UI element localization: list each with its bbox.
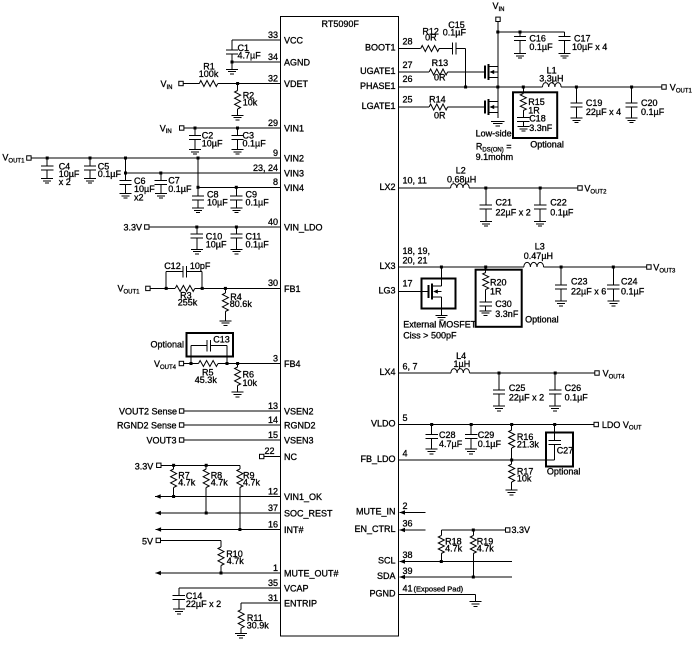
junction R4 <box>224 287 227 290</box>
svg-text:10µF: 10µF <box>202 138 223 148</box>
wire VIN2 to VIN4 <box>197 158 199 187</box>
svg-text:22µF x 6: 22µF x 6 <box>571 286 606 296</box>
resistor R11 <box>240 603 242 610</box>
svg-text:26: 26 <box>403 74 413 84</box>
junction R20 top <box>484 266 487 269</box>
junction R19 bottom <box>472 576 475 579</box>
svg-text:VSEN3: VSEN3 <box>284 436 314 446</box>
svg-text:4.7µF: 4.7µF <box>238 51 262 61</box>
resistor R6 <box>237 364 239 368</box>
resistor R8 <box>205 465 207 469</box>
capacitor C27 <box>554 425 556 441</box>
capacitor C25 <box>498 373 500 390</box>
svg-text:0.1µF: 0.1µF <box>565 392 589 402</box>
junction C12 left <box>165 287 168 290</box>
svg-text:x2: x2 <box>134 193 144 203</box>
wire 3.3V rail <box>161 464 240 466</box>
svg-text:Optional: Optional <box>530 140 564 150</box>
svg-text:Optional: Optional <box>525 315 559 325</box>
svg-text:10µF x 4: 10µF x 4 <box>572 42 607 52</box>
junction C3 <box>236 127 239 130</box>
ground below R6 <box>232 391 244 393</box>
resistor R15 <box>522 87 524 94</box>
svg-text:VIN3: VIN3 <box>284 169 304 179</box>
capacitor C22 <box>539 188 541 205</box>
transistor Q3 external MOSFET <box>429 284 442 300</box>
svg-text:BOOT1: BOOT1 <box>365 43 396 53</box>
ground below C23 <box>555 300 567 302</box>
ground below C5 <box>84 178 96 180</box>
svg-text:22µF x 2: 22µF x 2 <box>186 599 221 609</box>
capacitor C30 <box>480 301 492 303</box>
svg-text:LX2: LX2 <box>379 182 395 192</box>
inductor L1 <box>543 83 562 87</box>
capacitor C13 <box>190 346 192 364</box>
wire R12 to C15 <box>439 48 452 50</box>
capacitor C12 branch <box>165 272 167 289</box>
svg-text:9: 9 <box>273 148 278 158</box>
ground below C14 <box>173 608 185 610</box>
junction R9 bottom <box>238 528 241 531</box>
resistor R19 <box>472 530 474 536</box>
junction C20 <box>630 86 633 89</box>
junction R19 top <box>472 529 475 532</box>
svg-text:C22: C22 <box>550 197 567 207</box>
svg-text:R14: R14 <box>429 95 446 105</box>
junction C19 <box>575 86 578 89</box>
wire R5 to FB4 <box>218 363 281 365</box>
wire FB_LDO pin 4 <box>399 459 555 461</box>
svg-text:SOC_REST: SOC_REST <box>284 509 333 519</box>
svg-text:10, 11: 10, 11 <box>403 176 427 186</box>
junction C12 right <box>201 287 204 290</box>
svg-text:33: 33 <box>268 30 278 40</box>
svg-text:1: 1 <box>273 563 278 573</box>
resistor R3 <box>175 285 195 291</box>
svg-text:13: 13 <box>268 401 278 411</box>
wire R1 to VDET <box>218 83 281 85</box>
junction C10 <box>195 226 198 229</box>
svg-text:VDET: VDET <box>284 79 309 89</box>
junction C22 <box>539 187 542 190</box>
svg-text:0.1µF: 0.1µF <box>98 169 122 179</box>
optional box R20 C30 <box>476 270 522 327</box>
svg-text:16: 16 <box>268 519 278 529</box>
svg-text:100k: 100k <box>199 69 219 79</box>
svg-text:SDA: SDA <box>377 571 396 581</box>
capacitor C16 <box>519 32 521 37</box>
wire Q3 drain <box>440 267 442 286</box>
ground below C9 <box>230 207 242 209</box>
junction R7 bottom <box>172 495 175 498</box>
wire L3 to VOUT3 <box>544 266 647 268</box>
junction C11 <box>235 226 238 229</box>
junction C7 <box>159 172 162 175</box>
wire LGATE1 pin 25 <box>399 106 430 108</box>
wire VIN2 pin 9 <box>31 157 280 159</box>
svg-text:0.1µF: 0.1µF <box>443 27 467 37</box>
svg-text:PHASE1: PHASE1 <box>360 81 396 91</box>
capacitor C10 <box>196 227 198 234</box>
svg-text:10k: 10k <box>517 473 532 483</box>
capacitor C4 <box>46 158 48 166</box>
wire MUTE_IN pin 2 <box>400 512 426 514</box>
resistor R16 <box>511 425 513 431</box>
junction C21 <box>484 187 487 190</box>
svg-text:VIN2: VIN2 <box>284 154 304 164</box>
capacitor C28 <box>431 425 433 435</box>
junction C29 <box>470 423 473 426</box>
svg-text:x 2: x 2 <box>59 177 71 187</box>
junction R2 top <box>236 82 239 85</box>
junction R10 bottom <box>220 572 223 575</box>
wire VSEN2 pin 13 <box>184 410 281 412</box>
ground below C28 <box>426 448 438 450</box>
wire VIN1_OK pin 12 <box>155 496 280 498</box>
wire ENTRIP pin 31 <box>241 602 280 604</box>
resistor R18 <box>440 530 442 536</box>
junction C26 <box>554 372 557 375</box>
svg-text:RT5090F: RT5090F <box>322 19 360 29</box>
svg-text:38: 38 <box>403 550 413 560</box>
svg-text:10µF: 10µF <box>206 240 227 250</box>
junction C13 left <box>190 362 193 365</box>
capacitor C5 <box>89 158 91 166</box>
svg-text:3.3V: 3.3V <box>512 525 531 535</box>
svg-text:NC: NC <box>284 452 297 462</box>
wire LG3 pin 17 <box>399 291 429 293</box>
svg-text:40: 40 <box>268 217 278 227</box>
wire Q1 drain-source <box>497 32 499 87</box>
resistor R9 <box>239 465 241 469</box>
wire L4 to VOUT4 <box>470 372 595 374</box>
junction C4 <box>46 157 49 160</box>
junction C6 <box>124 172 127 175</box>
svg-text:Optional: Optional <box>547 467 581 477</box>
svg-text:6, 7: 6, 7 <box>403 362 418 372</box>
svg-text:34: 34 <box>268 52 278 62</box>
capacitor C15 <box>451 42 453 54</box>
optional box C13 <box>187 333 234 357</box>
svg-text:29: 29 <box>268 118 278 128</box>
wire SOC_REST pin 37 <box>155 512 280 514</box>
junction C2 <box>194 127 197 130</box>
ground below C19 <box>570 117 582 119</box>
svg-text:0.1µF: 0.1µF <box>529 42 553 52</box>
svg-text:FB1: FB1 <box>284 284 301 294</box>
svg-text:5: 5 <box>403 413 408 423</box>
ground below C7 <box>155 193 167 195</box>
svg-text:0.68µH: 0.68µH <box>447 175 476 185</box>
svg-text:0.1µF: 0.1µF <box>641 107 665 117</box>
capacitor C19 <box>575 87 577 103</box>
svg-text:37: 37 <box>268 503 278 513</box>
svg-text:LX4: LX4 <box>379 367 395 377</box>
svg-text:C12: C12 <box>164 261 181 271</box>
svg-text:0R: 0R <box>434 73 446 83</box>
capacitor C23 <box>560 267 562 285</box>
svg-text:MUTE_IN: MUTE_IN <box>356 507 396 517</box>
wire EN_CTRL pin 36 <box>400 529 426 531</box>
wire UGATE1 pin 27 <box>399 71 430 73</box>
svg-text:VOUT2 Sense: VOUT2 Sense <box>119 406 177 416</box>
wire RGND2 pin 14 <box>184 424 281 426</box>
junction VIN/FET <box>496 31 499 34</box>
wire VCC pin 33 <box>232 39 281 41</box>
resistor R2 <box>237 84 239 91</box>
svg-text:VIN1: VIN1 <box>284 124 304 134</box>
svg-text:C21: C21 <box>496 197 513 207</box>
wire Q3 source <box>440 297 442 316</box>
svg-text:4.7k: 4.7k <box>211 478 229 488</box>
wire R14 to gate <box>448 106 485 108</box>
wire L1 to VOUT1 <box>561 86 662 88</box>
capacitor C3 <box>237 128 239 136</box>
svg-text:17: 17 <box>403 279 413 289</box>
junction C8 <box>197 186 200 189</box>
svg-text:LX3: LX3 <box>379 261 395 271</box>
wire SDA pin 39 <box>400 576 513 578</box>
wire FB4 pin 3 <box>184 363 199 365</box>
svg-text:3.3nF: 3.3nF <box>529 123 553 133</box>
svg-text:10k: 10k <box>243 378 258 388</box>
svg-text:INT#: INT# <box>284 525 304 535</box>
ground PGND <box>470 601 482 603</box>
ground below C4 <box>41 178 53 180</box>
junction C15/PHASE <box>464 86 467 89</box>
junction C16 <box>519 31 522 34</box>
ground below C10 <box>191 248 203 250</box>
svg-text:4.7k: 4.7k <box>227 556 245 566</box>
wire VIN1 pin 29 <box>184 127 281 129</box>
capacitor C11 <box>235 227 237 234</box>
svg-text:0.1µF: 0.1µF <box>246 240 270 250</box>
wire L2 to VOUT2 <box>469 187 578 189</box>
wire LX3 pins 18-21 <box>399 266 524 268</box>
capacitor C14 <box>178 588 180 595</box>
svg-text:39: 39 <box>403 566 413 576</box>
capacitor C26 <box>554 373 556 390</box>
svg-text:C23: C23 <box>571 277 588 287</box>
wire MUTE_OUT# pin 1 <box>155 572 280 574</box>
junction C13 right <box>226 362 229 365</box>
resistor R4 <box>224 288 226 293</box>
svg-text:3.3V: 3.3V <box>135 461 154 471</box>
wire 3.3V pullup rail right <box>441 529 505 531</box>
svg-text:5V: 5V <box>142 536 153 546</box>
resistor R1 <box>199 81 218 87</box>
wire VLDO pin 5 <box>399 424 595 426</box>
svg-text:VLDO: VLDO <box>371 419 396 429</box>
svg-text:25: 25 <box>403 95 413 105</box>
wire NC <box>264 456 281 458</box>
junction C9 <box>235 186 238 189</box>
junction R16 top <box>510 423 513 426</box>
ground below Q2 <box>491 120 505 122</box>
svg-text:VIN_LDO: VIN_LDO <box>284 223 323 233</box>
resistor R7 <box>173 465 175 469</box>
svg-text:VCAP: VCAP <box>284 584 309 594</box>
IC U1 RT5090F body <box>281 17 399 637</box>
resistor R14 <box>429 104 448 110</box>
capacitor C18 <box>517 117 529 119</box>
ground below R2 <box>232 114 244 116</box>
ground below C6 <box>120 193 132 195</box>
svg-text:3.3µH: 3.3µH <box>539 74 563 84</box>
svg-text:0.1µF: 0.1µF <box>621 286 645 296</box>
svg-text:VOUT3: VOUT3 <box>146 435 176 445</box>
ground below C29 <box>465 448 477 450</box>
svg-text:FB4: FB4 <box>284 359 301 369</box>
ground below C25 <box>493 405 505 407</box>
wire VIN3 pin 23 24 <box>126 172 281 174</box>
resistor R13 <box>429 69 448 75</box>
svg-text:3: 3 <box>273 353 278 363</box>
svg-text:4: 4 <box>403 449 408 459</box>
svg-text:4.7k: 4.7k <box>178 478 196 488</box>
junction R7 top <box>172 464 175 467</box>
svg-text:VIN4: VIN4 <box>284 183 304 193</box>
svg-text:10µF: 10µF <box>207 198 228 208</box>
svg-text:(Exposed Pad): (Exposed Pad) <box>414 585 464 594</box>
resistor R17 <box>511 460 513 464</box>
svg-text:0.1µF: 0.1µF <box>550 208 574 218</box>
svg-text:ENTRIP: ENTRIP <box>284 599 317 609</box>
inductor L3 <box>524 262 544 267</box>
wire VIN down <box>497 22 499 33</box>
svg-text:4.7k: 4.7k <box>445 544 463 554</box>
ground below C2 <box>189 149 201 151</box>
svg-text:22µF x 4: 22µF x 4 <box>586 107 621 117</box>
optional box R15 C18 <box>513 92 557 138</box>
svg-text:21.3k: 21.3k <box>517 439 540 449</box>
wire BOOT1 pin 28 <box>399 48 421 50</box>
svg-text:41: 41 <box>403 584 413 594</box>
wire SCL pin 38 <box>400 561 513 563</box>
svg-text:30.9k: 30.9k <box>247 620 270 630</box>
svg-text:FB_LDO: FB_LDO <box>360 454 395 464</box>
svg-text:23, 24: 23, 24 <box>253 163 278 173</box>
svg-text:1µH: 1µH <box>454 359 471 369</box>
node VOUT4 right <box>595 371 599 375</box>
junction R17 top <box>510 459 513 462</box>
capacitor C2 <box>194 128 196 136</box>
svg-text:VIN1_OK: VIN1_OK <box>284 492 322 502</box>
capacitor C1 <box>231 40 233 50</box>
wire LX2 pins 10 11 <box>399 187 451 189</box>
wire AGND pin 34 <box>232 61 281 63</box>
capacitor C24 <box>612 267 614 285</box>
svg-text:20, 21: 20, 21 <box>403 255 428 265</box>
ground below C21 <box>480 221 492 223</box>
svg-text:C13: C13 <box>213 335 230 345</box>
ground below C16 <box>514 53 526 55</box>
wire R3 to FB1 <box>195 287 281 289</box>
external MOSFET box <box>422 279 456 309</box>
junction C23 <box>560 266 563 269</box>
svg-text:8: 8 <box>273 177 278 187</box>
svg-text:C30: C30 <box>495 299 512 309</box>
svg-text:36: 36 <box>403 519 413 529</box>
wire VCAP pin 35 <box>179 587 281 589</box>
capacitor C21 <box>485 188 487 205</box>
svg-text:4.7µF: 4.7µF <box>439 439 463 449</box>
ground below C26 <box>549 405 561 407</box>
svg-text:0.1µF: 0.1µF <box>246 198 270 208</box>
svg-text:15: 15 <box>268 430 278 440</box>
junction AGND/C1 <box>231 61 234 64</box>
svg-text:EN_CTRL: EN_CTRL <box>354 524 395 534</box>
svg-text:Optional: Optional <box>150 340 184 350</box>
svg-text:MUTE_OUT#: MUTE_OUT# <box>284 569 339 579</box>
svg-text:28: 28 <box>403 37 413 47</box>
resistor R10 <box>220 540 222 547</box>
junction Q3 drain <box>440 266 443 269</box>
svg-text:R13: R13 <box>432 58 449 68</box>
node LDO VOUT <box>594 422 598 426</box>
capacitor C8 <box>197 187 199 196</box>
svg-text:255k: 255k <box>178 297 198 307</box>
svg-text:SCL: SCL <box>378 556 396 566</box>
ground below R4 <box>219 320 231 322</box>
wire LX4 pins 6 7 <box>399 372 451 374</box>
junction C28 <box>430 423 433 426</box>
wire VIN rail <box>498 31 565 33</box>
svg-text:30: 30 <box>268 278 278 288</box>
svg-text:4.7k: 4.7k <box>243 478 261 488</box>
junction R8 bottom <box>205 512 208 515</box>
junction C5 <box>89 157 92 160</box>
svg-text:22µF x 2: 22µF x 2 <box>509 392 544 402</box>
wire C15 to phase <box>456 48 466 50</box>
svg-text:1R: 1R <box>490 287 502 297</box>
junction VIN4 branch <box>197 157 200 160</box>
svg-text:UGATE1: UGATE1 <box>360 66 395 76</box>
svg-text:External MOSFET: External MOSFET <box>403 319 477 329</box>
svg-text:80.6k: 80.6k <box>230 299 253 309</box>
junction R18 bottom <box>440 560 443 563</box>
junction C27 top <box>553 423 556 426</box>
svg-text:VCC: VCC <box>284 36 304 46</box>
wire VIN4 pin 8 <box>198 186 281 188</box>
capacitor C6 <box>125 173 127 180</box>
wire R13 to gate <box>448 71 485 73</box>
ground below C1 <box>231 62 233 69</box>
wire INT# pin 16 <box>156 529 281 531</box>
ground below C22 <box>534 221 546 223</box>
svg-text:14: 14 <box>268 415 278 425</box>
capacitor C17 <box>564 32 566 37</box>
ground below R11 <box>235 632 247 634</box>
ground below C20 <box>626 117 638 119</box>
transistor Q1 high-side MOSFET <box>485 64 498 80</box>
node VOUT2 <box>578 186 582 190</box>
svg-text:Low-side: Low-side <box>476 129 512 139</box>
svg-text:3.3nF: 3.3nF <box>495 309 519 319</box>
svg-text:RGND2 Sense: RGND2 Sense <box>117 420 177 430</box>
inductor L4 <box>451 369 470 373</box>
wire PHASE1 pin 26 <box>399 86 543 88</box>
ground below C18 <box>517 126 529 128</box>
svg-text:32: 32 <box>268 73 278 83</box>
wire VIN_LDO pin 40 <box>149 226 281 228</box>
wire Q2 drain-source <box>497 87 499 118</box>
node VOUT3 <box>647 265 651 269</box>
ground below R17 <box>506 489 518 491</box>
svg-text:22: 22 <box>264 446 274 456</box>
svg-text:C27: C27 <box>557 445 574 455</box>
svg-text:27: 27 <box>403 60 413 70</box>
